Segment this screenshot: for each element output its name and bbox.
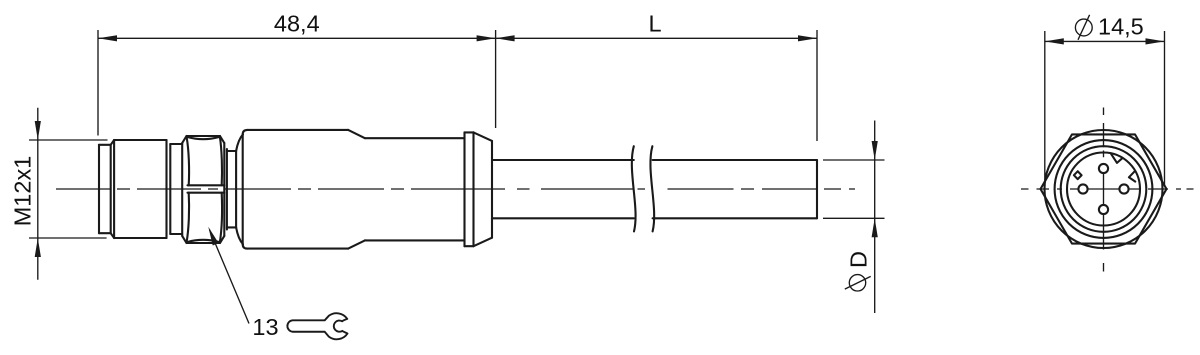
- dimension M12x1 line: [37, 108, 39, 280]
- hex nut left edge: [181, 143, 183, 236]
- cable end vertical: [816, 160, 818, 218]
- leader line for wrench size: [210, 230, 250, 324]
- dimension 48,4 extension line left: [97, 30, 99, 136]
- front view dimension 14,5 line: [1045, 40, 1165, 42]
- dimension L arrow right: [798, 35, 817, 41]
- dimension M12x1 arrow bottom: [35, 238, 41, 257]
- connector mating step right edge: [110, 145, 112, 233]
- dimension 48,4 arrow right: [477, 35, 496, 41]
- end cone bottom slant: [474, 238, 493, 247]
- pin 1 top: [1099, 164, 1108, 173]
- front view thread circle: [1055, 140, 1153, 238]
- groove bottom edge: [227, 226, 236, 228]
- dimension L extension line left: [495, 30, 497, 128]
- dimension D extension line top: [823, 159, 885, 161]
- leader arrow to hex nut: [208, 227, 218, 246]
- hex nut corner chamfer top-right: [220, 136, 224, 143]
- hex nut bottom edge: [187, 242, 221, 244]
- body corner bottom-left: [243, 244, 248, 248]
- keying wedge right: [1129, 171, 1135, 181]
- svg-text:14,5: 14,5: [1098, 14, 1144, 40]
- thread chamfer top diagonal: [111, 140, 114, 145]
- dimension D arrow bottom: [872, 218, 878, 237]
- hex nut corner chamfer bottom-right: [220, 236, 224, 243]
- hex nut right edge: [223, 143, 225, 236]
- hex nut middle band lower line: [188, 192, 225, 194]
- washer vertical after hex: [226, 149, 228, 230]
- neck top edge: [170, 143, 182, 145]
- front view dimension arrow right: [1146, 38, 1165, 44]
- body top edge: [248, 129, 349, 131]
- hex nut corner chamfer top-left: [182, 136, 186, 143]
- dimension L extension line right: [816, 30, 818, 141]
- thread barrel bottom edge: [114, 237, 166, 239]
- dimension L arrow left: [496, 35, 515, 41]
- front view dimension arrow left: [1045, 38, 1064, 44]
- cable top edge segment 2: [653, 159, 817, 161]
- body left edge: [242, 134, 244, 244]
- centerline of side view: [56, 188, 855, 190]
- hex nut flat arc upper-left: [187, 137, 189, 185]
- pin 4 left: [1078, 184, 1087, 193]
- end ring bottom edge: [465, 245, 474, 247]
- front view dimension 14,5 extension right: [1164, 31, 1166, 186]
- cable break curve 2: [650, 146, 654, 231]
- cable top edge segment 1: [492, 159, 634, 161]
- neck bottom edge: [170, 233, 182, 235]
- dimension M12x1 extension line top: [29, 139, 108, 141]
- front view hexagon: [1041, 134, 1167, 243]
- rear sleeve bottom edge: [365, 239, 465, 241]
- thread barrel end vertical: [165, 140, 167, 238]
- svg-text:M12x1: M12x1: [10, 156, 36, 227]
- cable bottom edge segment 1: [492, 217, 634, 219]
- body bottom edge: [248, 248, 349, 250]
- dimension 48,4 line: [98, 37, 496, 39]
- dimension M12x1 extension line bottom: [29, 237, 107, 239]
- thread chamfer bottom diagonal: [111, 233, 114, 238]
- hex nut chamfer arc bottom: [188, 240, 219, 242]
- hex nut flat arc lower-right: [220, 193, 222, 242]
- hex nut chamfer arc top: [188, 137, 219, 139]
- body corner top-left: [243, 130, 248, 134]
- hex nut flat arc upper-right: [220, 137, 222, 185]
- body taper bottom slant: [348, 240, 365, 248]
- connector mating step bottom edge: [99, 232, 111, 234]
- svg-text:D: D: [846, 251, 872, 268]
- front view vertical centerline: [1103, 108, 1105, 272]
- body flare bottom curve: [236, 227, 243, 244]
- keying tab left diamond: [1074, 171, 1082, 179]
- keying wedge top-right: [1111, 154, 1122, 163]
- front view insert face circle: [1067, 153, 1140, 226]
- dimension M12x1 arrow top: [35, 121, 41, 140]
- front view phi circle: [1075, 19, 1092, 36]
- dimension L line: [496, 37, 817, 39]
- end cone top slant: [474, 132, 493, 141]
- thread chamfer vertical: [113, 140, 115, 238]
- wrench icon: [287, 313, 347, 339]
- body flare top curve: [236, 134, 243, 151]
- hex nut top edge: [187, 135, 221, 137]
- svg-text:L: L: [648, 11, 661, 37]
- svg-text:13: 13: [252, 314, 278, 340]
- groove top edge: [227, 150, 236, 152]
- dimension D extension line bottom: [823, 217, 885, 219]
- end ring right vertical: [472, 132, 474, 246]
- pin 2 right: [1119, 184, 1128, 193]
- cable bottom edge segment 2: [653, 217, 817, 219]
- groove right vertical: [235, 151, 237, 227]
- dimension D arrow top: [872, 141, 878, 160]
- thread runout vertical: [169, 144, 171, 234]
- dimension D line: [874, 121, 876, 314]
- end ring top edge: [465, 131, 474, 133]
- svg-text:48,4: 48,4: [274, 11, 320, 37]
- hex nut middle band upper line: [188, 184, 225, 186]
- hex nut flat arc lower-left: [187, 193, 189, 242]
- pin 3 bottom: [1099, 205, 1108, 214]
- front view horizontal centerline: [1021, 188, 1194, 190]
- connector mating step top edge: [99, 144, 111, 146]
- dimension 48,4 arrow left: [98, 35, 117, 41]
- body taper top slant: [348, 130, 365, 138]
- end ring left vertical: [463, 132, 465, 246]
- dimension D phi circle: [849, 275, 865, 291]
- hex nut corner chamfer bottom-left: [182, 236, 186, 243]
- front view thread minor circle: [1061, 146, 1147, 232]
- thread barrel top edge: [114, 139, 166, 141]
- connector mating step left face: [98, 145, 100, 233]
- front view outer circle: [1045, 130, 1163, 248]
- front view phi slash: [1078, 15, 1090, 40]
- dimension D phi slash: [845, 276, 871, 289]
- rear sleeve top edge: [365, 137, 465, 139]
- end face vertical: [491, 141, 493, 238]
- cable break curve 1: [632, 146, 636, 231]
- front view dimension 14,5 extension left: [1044, 31, 1046, 180]
